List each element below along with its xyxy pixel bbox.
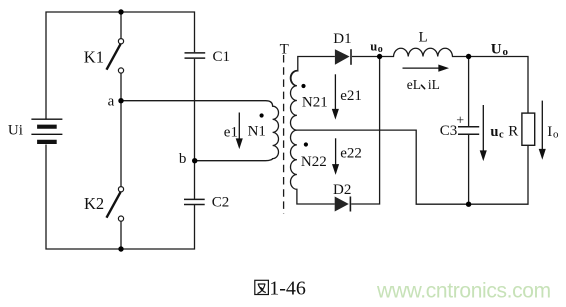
svg-text:Io: Io [547,124,559,140]
svg-text:T: T [280,42,289,58]
svg-text:iL: iL [428,77,440,92]
svg-text:N1: N1 [248,123,266,139]
svg-text:Uo: Uo [491,42,509,58]
svg-text:eL: eL [407,77,421,92]
svg-text:L: L [419,30,428,46]
svg-text:b: b [179,151,187,167]
svg-text:K1: K1 [84,47,104,66]
svg-text:www.cntronics.com: www.cntronics.com [376,280,551,303]
svg-text:e1: e1 [224,125,238,141]
svg-text:D1: D1 [333,31,351,47]
svg-text:R: R [508,124,518,140]
svg-text:D2: D2 [333,182,351,198]
svg-text:C1: C1 [213,49,231,65]
svg-text:e21: e21 [340,88,362,104]
svg-text:K2: K2 [84,194,104,213]
svg-text:1-46: 1-46 [269,277,306,299]
svg-text:C3: C3 [440,123,458,139]
svg-text:a: a [108,94,115,110]
svg-text:N21: N21 [302,95,328,111]
svg-text:+: + [456,114,464,129]
svg-text:e22: e22 [340,146,362,162]
svg-text:C2: C2 [212,194,230,210]
svg-text:uc: uc [490,124,504,140]
svg-text:N22: N22 [301,154,327,170]
svg-text:Ui: Ui [8,123,23,139]
svg-text:uo: uo [370,39,382,54]
